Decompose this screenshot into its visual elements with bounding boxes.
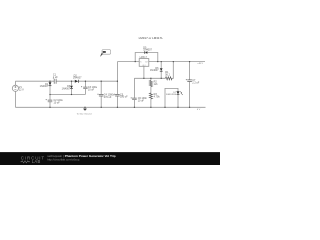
svg-text:0 V: 0 V: [197, 109, 201, 111]
wire mid rail: [50, 94, 85, 96]
svg-text:1N4007: 1N4007: [150, 69, 159, 72]
wire bottom rail: [15, 106, 205, 108]
svg-text:1 uF: 1 uF: [53, 76, 58, 79]
junction (50,94.5): [49, 94, 50, 95]
svg-text:5082-2810: 5082-2810: [166, 94, 177, 96]
junction (189.6,61.6): [189, 61, 190, 62]
junction (161.2,61.6): [161, 61, 162, 62]
junction (117.4,81.2): [117, 81, 118, 82]
wire source bottom: [14, 91, 16, 107]
svg-text:12 V: 12 V: [19, 89, 24, 92]
diode D3 (chain x71.5): [70, 86, 73, 89]
voltage source V1: [12, 85, 18, 91]
diode D5 (protection over regulator): [145, 51, 147, 54]
svg-text:10 uF: 10 uF: [138, 100, 145, 103]
regulator U1 LM317 box: [139, 59, 149, 67]
junction (143.9,78.3): [143, 78, 144, 79]
junction (161.2,78.3): [161, 78, 162, 79]
junction (157.8,61.6): [157, 61, 158, 62]
junction (71.5,94.5): [71, 94, 72, 95]
svg-text:To Star Ground: To Star Ground: [77, 112, 93, 115]
comment bubble icon: [100, 50, 111, 57]
wire diode bridge over regulator: [135, 53, 158, 62]
capacitor C3 (chain x85.4): [83, 87, 87, 89]
capacitor C2 (chain x50 lower): [48, 100, 53, 102]
wire adj pin: [143, 66, 145, 78]
wire chain x50: [49, 81, 51, 107]
svg-text:1N4007: 1N4007: [143, 48, 152, 51]
junction (117.4,107.3): [117, 107, 118, 108]
wire top rail: [15, 80, 117, 82]
junction (173.3,61.6): [173, 61, 174, 62]
wire chain D6: [160, 62, 162, 79]
resistor R2 (vertical): [149, 81, 152, 87]
wire LED branch: [165, 88, 178, 107]
LED D7: [176, 91, 179, 94]
svg-text:LAB: LAB: [32, 159, 41, 164]
capacitor C6 (adj bypass chain x134.4): [132, 98, 137, 100]
resistor R1 (horizontal, adj rail): [166, 77, 173, 80]
svg-text:LM317 or LM317L: LM317 or LM317L: [139, 36, 164, 40]
capacitor C1 (series, top rail): [54, 79, 56, 84]
junction (50,107.3): [49, 107, 50, 108]
junction (135.2,61.6): [135, 61, 136, 62]
junction (101.2,107.3): [101, 107, 102, 108]
junction (178,107.3): [177, 107, 178, 108]
junction (101.2,81.2): [101, 81, 102, 82]
wire chain C7: [189, 62, 191, 108]
capacitor C5 (chain x117.4): [115, 94, 120, 96]
svg-text:121: 121: [154, 83, 159, 86]
wire chain x117.4: [116, 62, 118, 108]
wire regulator output: [149, 61, 205, 63]
svg-text:1N4007: 1N4007: [62, 87, 71, 90]
capacitor C7 (output chain x189.6): [187, 80, 192, 82]
wire chain C6: [133, 78, 135, 107]
svg-text:OUT: OUT: [145, 62, 148, 64]
svg-text:1N4007: 1N4007: [73, 77, 82, 80]
ground flag To Star Ground: [84, 107, 86, 108]
svg-text:4.75k: 4.75k: [154, 96, 161, 99]
junction (134.4,107.3): [134, 107, 135, 108]
wire chain x101.2: [100, 81, 102, 107]
junction (85.4,81.2): [85, 81, 86, 82]
wire adj rail: [134, 62, 173, 79]
svg-text:56.2: 56.2: [165, 74, 170, 77]
junction (50,81.2): [49, 81, 50, 82]
wire chain R2 R3: [150, 78, 152, 107]
junction (85,107.3): [84, 107, 85, 108]
junction (71.5,81.2): [71, 81, 72, 82]
svg-text:180 uF: 180 uF: [120, 96, 128, 99]
svg-text:10 uF: 10 uF: [88, 88, 95, 91]
svg-text:2.2 uF: 2.2 uF: [192, 81, 199, 84]
LED arrows: [180, 91, 183, 94]
junction (165,107.3): [164, 107, 165, 108]
resistor R3 (vertical): [149, 93, 152, 99]
junction (150.9,107.3): [150, 107, 151, 108]
svg-text:+48 V: +48 V: [197, 63, 203, 65]
diode D2 (series, top rail): [75, 80, 78, 83]
svg-text:1N4007: 1N4007: [40, 85, 49, 88]
wire source top: [14, 81, 16, 85]
diode D6 (out to adj): [160, 68, 163, 71]
svg-text:10 uF: 10 uF: [54, 101, 61, 104]
junction (189.6,107.3): [189, 107, 190, 108]
wire chain x71.5: [71, 81, 73, 94]
svg-text:http://circuitlab.com/c6zcq: http://circuitlab.com/c6zcq: [47, 158, 80, 162]
svg-text:470 uF: 470 uF: [104, 96, 112, 99]
junction (150.9,78.3): [150, 78, 151, 79]
diode D1 (chain x50): [49, 82, 52, 85]
capacitor C4 (chain x101.2): [99, 94, 104, 96]
wire regulator input: [117, 61, 139, 63]
svg-text:LM317: LM317: [140, 56, 148, 59]
wire chain x85.4: [84, 81, 86, 94]
footer bar: [0, 152, 220, 165]
